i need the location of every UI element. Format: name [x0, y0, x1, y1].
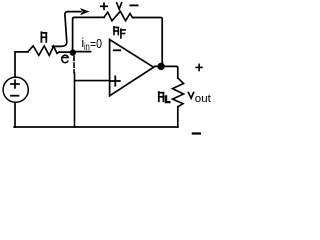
- wire non-inverting input: [75, 80, 110, 82]
- bottom rail wire: [14, 126, 178, 128]
- resistor RL: [173, 78, 184, 107]
- plus label above RF: [101, 3, 108, 9]
- resistor RF: [104, 11, 133, 20]
- svg-text:in: in: [84, 42, 90, 53]
- dashed line node e to ground reference: [73, 56, 75, 72]
- plus label at vout: [196, 64, 202, 70]
- wire R to node e: [59, 51, 71, 53]
- wire node e up to feedback corner: [73, 17, 104, 51]
- op-amp plus input sign: [111, 76, 120, 85]
- svg-text:out: out: [195, 93, 211, 105]
- svg-text:L: L: [165, 94, 170, 105]
- wire source top to corner: [15, 52, 28, 77]
- wire RF right to corner down to output node: [133, 18, 163, 65]
- label i_in=0: [81, 36, 102, 53]
- current arrow head: [81, 9, 89, 15]
- minus label above RF: [130, 4, 137, 6]
- svg-text:=0: =0: [90, 37, 102, 51]
- label RF: [114, 27, 125, 38]
- node e dot: [70, 49, 76, 55]
- minus label at vout bottom: [193, 132, 200, 134]
- label R: [41, 32, 46, 42]
- wire non-inverting down to bottom rail: [74, 73, 76, 127]
- current arrow i (tail and shaft): [53, 12, 82, 47]
- label vout: [188, 93, 210, 105]
- wire RL bottom to rail: [177, 107, 179, 127]
- label e: [62, 55, 69, 63]
- wire op-amp output to load corner: [155, 66, 178, 78]
- output node dot: [157, 63, 164, 70]
- voltage source minus sign: [11, 95, 19, 97]
- wire source bottom to rail: [14, 102, 16, 127]
- voltage source plus sign: [11, 80, 19, 88]
- voltage source VS: [3, 77, 28, 102]
- op-amp minus input sign: [114, 49, 121, 51]
- op-amp U1 triangle: [110, 40, 154, 96]
- resistor R: [28, 46, 59, 56]
- label v above RF: [117, 3, 122, 10]
- label RL: [159, 92, 170, 105]
- wire node e to i_in underline (inverting input lead): [74, 51, 91, 53]
